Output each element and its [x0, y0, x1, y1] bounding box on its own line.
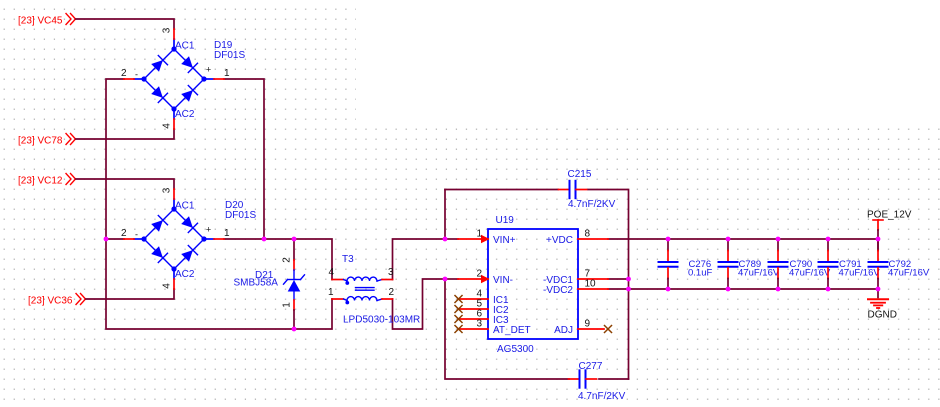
svg-text:T3: T3: [342, 254, 354, 265]
svg-text:LPD5030-103MR: LPD5030-103MR: [343, 315, 420, 326]
svg-text:2: 2: [476, 269, 482, 280]
wire C792 bottom corner to ground: [877, 289, 879, 298]
svg-text:C277: C277: [579, 361, 603, 372]
junction C789 bottom: [726, 287, 731, 292]
wire VIN+ node to pin1: [445, 238, 458, 240]
svg-text:DF01S: DF01S: [214, 50, 245, 61]
port [23] VC45: [18, 14, 76, 27]
wire C215 left segment: [445, 189, 558, 191]
no-connect X on pin 4: [455, 296, 462, 303]
wire VIN- node to pin2: [445, 278, 458, 280]
junction DGND node: [876, 287, 881, 292]
bridge rectifier D19 DF01S: [124, 29, 224, 129]
junction pin10 node: [626, 287, 631, 292]
svg-text:DF01S: DF01S: [225, 210, 256, 221]
capacitor C215: [559, 181, 587, 198]
capacitor C791: [819, 239, 838, 289]
svg-text:3: 3: [162, 187, 173, 193]
svg-text:4: 4: [162, 283, 173, 289]
svg-text:DGND: DGND: [868, 310, 897, 321]
junction pin7 node: [626, 277, 631, 282]
capacitor C792: [869, 239, 888, 289]
wire pin7 to vertical: [608, 278, 629, 280]
svg-text:3: 3: [388, 267, 394, 278]
svg-text:[23] VC45: [23] VC45: [18, 16, 63, 27]
svg-text:C215: C215: [568, 169, 592, 180]
svg-text:47uF/16V: 47uF/16V: [888, 267, 930, 278]
svg-text:-: -: [135, 230, 138, 240]
junction left rail / D20 minus: [104, 237, 109, 242]
wire D19 plus down to node: [224, 79, 264, 239]
wire C215 right segment down to C277: [588, 190, 629, 380]
svg-text:1: 1: [224, 228, 230, 239]
svg-text:4: 4: [162, 123, 173, 129]
junction VIN+ node: [443, 237, 448, 242]
wire VC78 to D19 pin4: [76, 129, 174, 139]
wire VIN- node down to C277 left: [445, 279, 569, 379]
PoE module U19 AG5300: [458, 229, 608, 339]
wire D20 plus to T3 pin4: [224, 239, 332, 280]
wire C277 right segment: [599, 378, 629, 380]
port [23] VC36: [28, 294, 86, 307]
svg-text:0.1uF: 0.1uF: [688, 267, 712, 278]
junction C276 bottom: [666, 287, 671, 292]
capacitor C277: [569, 370, 597, 387]
svg-text:9: 9: [585, 319, 591, 330]
svg-text:AC1: AC1: [175, 201, 195, 212]
svg-text:+VDC: +VDC: [546, 235, 573, 246]
svg-text:2: 2: [282, 257, 293, 263]
junction C276 top: [666, 237, 671, 242]
svg-text:8: 8: [585, 229, 591, 240]
coupled inductor T3 LPD5030-103MR: [332, 277, 393, 304]
junction C789 top: [726, 237, 731, 242]
svg-text:AC2: AC2: [175, 109, 195, 120]
port [23] VC12: [18, 174, 76, 187]
svg-text:3: 3: [476, 319, 482, 330]
svg-text:4.7nF/2KV: 4.7nF/2KV: [568, 199, 616, 210]
capacitor C789: [719, 239, 738, 289]
power symbol POE_12V: [873, 220, 883, 239]
svg-text:+: +: [206, 225, 211, 235]
svg-text:1: 1: [224, 68, 230, 79]
svg-text:1: 1: [328, 287, 334, 298]
svg-text:POE_12V: POE_12V: [867, 210, 912, 221]
svg-text:+: +: [206, 65, 211, 75]
svg-text:[23] VC78: [23] VC78: [18, 136, 63, 147]
junction D21 cathode node: [292, 237, 297, 242]
svg-text:U19: U19: [496, 215, 515, 226]
svg-text:47uF/16V: 47uF/16V: [738, 267, 780, 278]
wire C792 top corner: [877, 239, 879, 251]
wire D20 minus to left rail: [106, 238, 124, 240]
svg-text:AC1: AC1: [175, 41, 195, 52]
bridge rectifier D20 DF01S: [124, 189, 224, 289]
svg-text:[23] VC12: [23] VC12: [18, 176, 63, 187]
no-connect X on pin 5: [455, 306, 462, 313]
wire D19 minus down left rail: [106, 79, 332, 329]
junction POE_12V node: [876, 237, 881, 242]
svg-text:[23] VC36: [23] VC36: [28, 296, 73, 307]
tvs diode D21 SMBJ58A: [284, 239, 305, 329]
wire VC45 to D19 pin3: [76, 19, 174, 29]
svg-text:4.7nF/2KV: 4.7nF/2KV: [578, 391, 626, 402]
wire top output rail POE_12V: [608, 238, 878, 240]
junction VIN- node: [443, 277, 448, 282]
junction C790 top: [776, 237, 781, 242]
junction C790 bottom: [776, 287, 781, 292]
wire T3 pin2 to VIN- node: [393, 279, 446, 329]
junction D19 plus tie: [262, 237, 267, 242]
wire VC12 to D20 pin3: [76, 179, 174, 189]
junction C791 bottom: [826, 287, 831, 292]
svg-text:4: 4: [328, 267, 334, 278]
svg-text:AG5300: AG5300: [497, 344, 534, 355]
wire VIN+ node up to C215: [444, 190, 446, 240]
svg-text:ADJ: ADJ: [554, 325, 573, 336]
svg-text:2: 2: [388, 287, 394, 298]
wire VC36 to D20 pin4: [86, 289, 174, 299]
no-connect X on pin 3: [455, 326, 462, 333]
junction D21 anode node: [292, 327, 297, 332]
svg-text:10: 10: [585, 279, 597, 290]
svg-text:AT_DET: AT_DET: [493, 325, 531, 336]
svg-text:2: 2: [121, 68, 127, 79]
no-connect X on pin 9: [605, 326, 612, 333]
svg-text:-: -: [135, 70, 138, 80]
ground symbol DGND: [868, 299, 888, 308]
svg-text:47uF/16V: 47uF/16V: [839, 267, 881, 278]
no-connect X on pin 6: [455, 316, 462, 323]
svg-text:AC2: AC2: [175, 269, 195, 280]
port [23] VC78: [18, 134, 76, 147]
wire pin10 to bottom output rail: [608, 288, 629, 290]
svg-text:47uF/16V: 47uF/16V: [789, 267, 831, 278]
svg-text:VIN+: VIN+: [493, 235, 516, 246]
wire bottom output rail: [629, 288, 879, 290]
svg-text:1: 1: [282, 302, 293, 308]
svg-text:VIN-: VIN-: [493, 275, 513, 286]
wire T3 pin3 to VIN+ node: [393, 239, 446, 280]
svg-text:-VDC2: -VDC2: [543, 285, 573, 296]
svg-text:3: 3: [162, 27, 173, 33]
svg-text:1: 1: [476, 229, 482, 240]
capacitor C276: [659, 239, 678, 289]
svg-text:2: 2: [121, 228, 127, 239]
svg-text:SMBJ58A: SMBJ58A: [234, 278, 279, 289]
capacitor C790: [769, 239, 788, 289]
junction C791 top: [826, 237, 831, 242]
